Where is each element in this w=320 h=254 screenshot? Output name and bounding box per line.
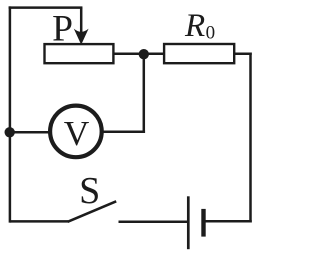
wire bottom left (left rail to switch hinge) <box>10 220 68 223</box>
wire top (top-left corner to wiper arm) <box>9 6 83 9</box>
wire bottom right (right rail to battery negative plate) <box>205 220 252 223</box>
wire potentiometer P to node A <box>113 53 164 56</box>
wire wiper arm shaft down to potentiometer <box>80 8 83 33</box>
switch S blade (open) <box>68 201 117 222</box>
svg-text:V: V <box>64 113 90 153</box>
wire resistor R0 to right rail <box>234 53 252 56</box>
node A (junction of wiper branch, R0 and voltmeter) <box>139 49 149 59</box>
svg-text:P: P <box>52 9 73 50</box>
battery negative plate (short thick) <box>201 209 205 237</box>
wire battery positive plate to switch <box>119 221 188 224</box>
svg-text:0: 0 <box>206 22 216 43</box>
wire right rail (down to battery level) <box>249 53 252 223</box>
potentiometer P body <box>45 44 114 63</box>
wire voltmeter left lead from node B <box>9 131 53 134</box>
svg-text:R: R <box>184 8 205 44</box>
wire node A down to voltmeter level <box>143 54 146 133</box>
voltmeter V body <box>50 106 102 158</box>
wire left rail (top-left corner down to bottom-left corner) <box>9 6 12 222</box>
svg-text:S: S <box>79 170 100 212</box>
wire voltmeter right lead <box>99 131 145 134</box>
potentiometer wiper arrowhead <box>74 29 89 45</box>
node B (junction of left rail and voltmeter) <box>5 127 15 137</box>
battery positive plate (long thin) <box>187 196 190 249</box>
resistor R0 body <box>164 44 234 63</box>
